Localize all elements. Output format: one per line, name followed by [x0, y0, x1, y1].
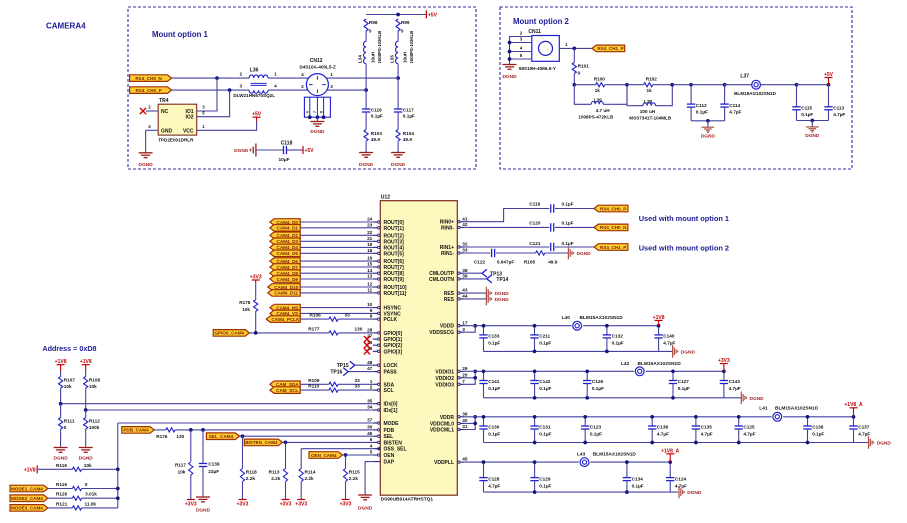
port CAM_SDA: [270, 381, 300, 388]
wire BISTEN to pin: [283, 441, 373, 443]
svg-text:0.1µF: 0.1µF: [539, 432, 551, 437]
svg-text:C112: C112: [696, 103, 707, 108]
resistor R101 0: [572, 48, 589, 84]
svg-text:R100: R100: [594, 77, 606, 82]
svg-text:1008PS-103KLB: 1008PS-103KLB: [377, 31, 382, 64]
svg-text:IDx[1]: IDx[1]: [384, 408, 398, 414]
U12 left pin 48 LOCK: [367, 360, 398, 369]
svg-text:130: 130: [355, 326, 363, 331]
svg-text:0.1µF: 0.1µF: [812, 432, 824, 437]
U12 right pin 41 RIN0+: [440, 216, 468, 225]
svg-text:4.7µF: 4.7µF: [488, 483, 500, 488]
svg-text:VDDIO2: VDDIO2: [435, 376, 454, 382]
svg-text:C116: C116: [371, 107, 382, 112]
U12 left pin 37 MODE: [367, 418, 399, 427]
test point TP15 on LOCK: [337, 361, 373, 369]
wire VDDR rail: [465, 416, 854, 418]
svg-text:CAMERA4: CAMERA4: [46, 22, 86, 31]
svg-text:SCL: SCL: [384, 388, 394, 394]
junction R118 top: [241, 434, 245, 438]
svg-text:59S10H-40ML5-Y: 59S10H-40ML5-Y: [519, 66, 556, 71]
svg-text:C118: C118: [281, 141, 293, 147]
power +1V8 at R116: [36, 465, 38, 473]
svg-text:BLM15AX102SN1D: BLM15AX102SN1D: [580, 315, 624, 321]
ground DGND at C118: [234, 144, 256, 157]
capacitor C137 4.7µF: [849, 417, 870, 443]
port RX4_CH0_P: [130, 87, 172, 94]
svg-text:OSS_SEL: OSS_SEL: [384, 447, 407, 453]
svg-text:32: 32: [462, 242, 468, 247]
U12 right pin 36 VDDR: [440, 411, 468, 420]
svg-text:VDDCML1: VDDCML1: [430, 428, 454, 434]
svg-text:CAM_SCL: CAM_SCL: [276, 388, 298, 393]
svg-text:BISTEN: BISTEN: [384, 440, 403, 446]
svg-text:3: 3: [462, 327, 465, 332]
svg-text:+1V8: +1V8: [653, 315, 665, 321]
svg-text:15: 15: [367, 262, 373, 267]
svg-text:+5V: +5V: [428, 13, 438, 19]
capacitor C127 0.1µF: [669, 371, 690, 398]
wire VDDIO2 bracket: [465, 371, 475, 378]
capacitor C139 22uF: [199, 430, 220, 497]
U12 left pin 19 ROUT[4]: [367, 242, 404, 251]
junction C137 top: [852, 415, 856, 419]
svg-text:R120: R120: [56, 492, 68, 497]
svg-text:R176: R176: [156, 434, 168, 439]
svg-text:49.9: 49.9: [403, 137, 413, 142]
wire R98 to L34: [365, 31, 367, 41]
svg-text:VDDD: VDDD: [440, 324, 455, 330]
svg-text:31: 31: [462, 424, 468, 429]
capacitor C120 0.1uF: [529, 221, 573, 232]
port CAM4_D7: [270, 264, 300, 271]
U12 left pin 28 GPIO[0]: [367, 328, 402, 337]
junction C211 bottom: [533, 350, 537, 354]
power +5V at C118: [302, 146, 304, 154]
dashed boundary box mount option 1: [128, 7, 476, 169]
svg-text:16: 16: [367, 256, 373, 261]
svg-text:RIN0-: RIN0-: [441, 225, 454, 231]
junction R108/R112: [84, 408, 88, 412]
svg-text:R106: R106: [310, 313, 322, 318]
capacitor C112 0.1uF: [687, 85, 708, 121]
wire CAM4_D6 to pin: [300, 260, 373, 262]
U12 left pin 30 PDB: [367, 425, 394, 434]
resistor R119 0: [48, 482, 118, 491]
junction R117 top: [189, 428, 193, 432]
U12 right pin 31 VDDCML1: [430, 424, 468, 433]
wire C112 to C114 top: [691, 84, 725, 86]
wire VDDCML1 bracket: [465, 423, 475, 429]
wire VDDIO rail: [465, 370, 724, 372]
wire CAM4_D8 to pin: [300, 272, 373, 274]
svg-text:NC: NC: [161, 109, 169, 115]
svg-text:TP14: TP14: [496, 277, 508, 283]
svg-text:5: 5: [370, 450, 373, 455]
wire CAM4_D5 to pin: [300, 252, 373, 254]
svg-text:47: 47: [367, 366, 373, 371]
junction C124 top: [668, 460, 672, 464]
svg-text:R112: R112: [89, 419, 100, 424]
U12 left pin 4 OSS_SEL: [370, 443, 407, 452]
capacitor C118 10uF: [279, 141, 293, 163]
junction R119: [116, 487, 120, 491]
wire CAM4_HS to HSYNC: [301, 307, 373, 309]
svg-text:C128: C128: [488, 476, 500, 481]
svg-text:DGND: DGND: [79, 456, 94, 462]
svg-text:4.7µF: 4.7µF: [729, 386, 741, 391]
svg-text:43: 43: [462, 288, 468, 293]
svg-text:IO2: IO2: [185, 115, 193, 121]
svg-text:44: 44: [462, 294, 468, 299]
svg-text:0.1µF: 0.1µF: [562, 221, 574, 226]
wire C115 to C113 top: [797, 84, 829, 86]
wire RIN0- to C120: [465, 226, 550, 228]
U12 left pin 35 IDx[0]: [367, 398, 398, 407]
svg-text:21: 21: [367, 236, 373, 241]
svg-text:+5V: +5V: [252, 112, 262, 118]
svg-text:ROUT[1]: ROUT[1]: [384, 226, 405, 232]
svg-text:R113: R113: [269, 469, 280, 474]
U12 left pin 8 PCLK: [370, 314, 398, 323]
junction C130 top: [482, 415, 486, 419]
svg-text:+3V3: +3V3: [237, 502, 249, 508]
capacitor C115 0.1uF: [792, 85, 813, 121]
svg-text:R102: R102: [646, 77, 658, 82]
port GPIO0_CAM4: [213, 330, 249, 337]
svg-text:4.7µF: 4.7µF: [729, 109, 741, 114]
svg-text:11: 11: [367, 288, 372, 293]
svg-text:R178: R178: [239, 300, 251, 305]
svg-text:L37: L37: [740, 73, 749, 79]
power +3V3 under R113: [285, 499, 287, 501]
svg-text:29: 29: [462, 366, 468, 371]
svg-text:C133: C133: [488, 334, 500, 339]
svg-text:CAM4_D7: CAM4_D7: [277, 265, 299, 270]
svg-text:9: 9: [370, 308, 373, 313]
svg-text:10k: 10k: [178, 469, 186, 474]
junction R178 bottom: [254, 331, 258, 335]
wire L35 column to C117: [397, 78, 399, 109]
svg-text:CAM4_D3: CAM4_D3: [277, 239, 299, 244]
svg-text:11.0k: 11.0k: [85, 502, 97, 507]
wire bottom row CN12 to L34: [326, 89, 366, 91]
svg-text:+1V8_A: +1V8_A: [661, 448, 680, 454]
svg-text:CAM4_D5: CAM4_D5: [277, 251, 299, 256]
svg-text:C134: C134: [632, 476, 644, 481]
svg-text:C132: C132: [612, 334, 624, 339]
svg-text:SEL: SEL: [384, 434, 394, 440]
ground DGND under DAP: [358, 494, 372, 496]
svg-text:+3V3: +3V3: [718, 358, 730, 364]
svg-text:19: 19: [367, 242, 373, 247]
wire C118 to +5V: [287, 149, 303, 151]
svg-text:MODE: MODE: [384, 421, 400, 427]
svg-text:+1V8: +1V8: [55, 359, 67, 365]
svg-text:+1V8: +1V8: [80, 359, 92, 365]
junction C136 top: [806, 415, 810, 419]
svg-text:R104: R104: [403, 131, 415, 136]
svg-text:C119: C119: [529, 202, 540, 207]
pin 3 wire: [510, 42, 532, 44]
port CAM4_D5: [270, 250, 300, 257]
U12 right pin 38 CMLOUTP: [429, 268, 468, 277]
svg-text:SEL_CAM4: SEL_CAM4: [209, 434, 234, 439]
wire: [559, 47, 592, 49]
junction C135 bottom: [694, 441, 698, 445]
power +3V3 under R118: [242, 499, 244, 501]
svg-text:R117: R117: [175, 462, 186, 467]
svg-text:L36: L36: [250, 68, 259, 74]
junction C138 top: [650, 415, 654, 419]
svg-text:+5V: +5V: [305, 148, 315, 154]
capacitor C125 4.7µF: [735, 417, 756, 443]
svg-text:ROUT[7]: ROUT[7]: [384, 265, 405, 271]
svg-text:DGND: DGND: [681, 350, 696, 356]
svg-text:10uH: 10uH: [370, 51, 375, 63]
capacitor C123 0.1µF: [581, 417, 602, 443]
svg-text:48: 48: [367, 360, 373, 365]
junction C134 top: [625, 460, 629, 464]
wire CAM4_D0 to pin: [300, 221, 373, 223]
wire C112/C114 bottoms: [691, 120, 725, 122]
svg-text:2.2k: 2.2k: [305, 476, 315, 481]
svg-text:C141: C141: [488, 379, 500, 384]
svg-text:8: 8: [319, 111, 323, 113]
shield pin joint: [322, 115, 326, 119]
svg-text:10: 10: [367, 302, 373, 307]
svg-text:17: 17: [462, 320, 468, 325]
wire VDDD rail: [465, 325, 659, 327]
capacitor C135 4.7µF: [692, 417, 713, 443]
junction C140 top: [657, 324, 661, 328]
resistor R120 3.01k: [48, 492, 118, 501]
resistor R113 2.2k: [269, 442, 288, 499]
svg-text:2.2k: 2.2k: [271, 476, 281, 481]
svg-text:7: 7: [462, 379, 465, 384]
wire: [172, 89, 250, 91]
svg-text:DGND: DGND: [139, 162, 154, 168]
svg-text:BLM18AG102SN1D: BLM18AG102SN1D: [734, 91, 777, 96]
svg-text:DGND: DGND: [391, 162, 406, 168]
svg-text:GPIO[3]: GPIO[3]: [384, 349, 403, 355]
svg-text:C130: C130: [488, 425, 500, 430]
svg-text:C211: C211: [539, 334, 550, 339]
svg-text:4.7µF: 4.7µF: [663, 341, 675, 346]
svg-text:VDDCML0: VDDCML0: [430, 421, 454, 427]
power +3V3 at VDDIO rail: [723, 364, 725, 372]
svg-text:LOCK: LOCK: [384, 363, 399, 369]
svg-text:BLM15AX102SN1D: BLM15AX102SN1D: [593, 451, 637, 457]
junction C125 top: [737, 415, 741, 419]
svg-text:1k: 1k: [647, 88, 653, 93]
wire L34 column to C116: [365, 90, 367, 109]
wire IDx1 net: [86, 409, 373, 411]
pin 5 wire: [510, 58, 532, 60]
connector CN11 59S10H-40ML5-Y: [519, 29, 559, 71]
ground DGND termination RIN1-: [567, 247, 569, 260]
wire CAM4_D3 to pin: [300, 240, 373, 242]
svg-text:C114: C114: [729, 103, 740, 108]
svg-text:0: 0: [369, 29, 372, 34]
svg-text:GPIO[0]: GPIO[0]: [384, 331, 403, 337]
ground DGND under R104: [391, 152, 405, 154]
port MODE1_CAM4: [10, 485, 48, 492]
U12 left pin 47 PASS: [367, 366, 397, 375]
capacitor C136 0.1µF: [803, 417, 824, 443]
junction C211 top: [533, 324, 537, 328]
port CAM4_D10: [268, 284, 300, 291]
svg-text:DGND: DGND: [577, 251, 592, 257]
svg-text:ROUT[5]: ROUT[5]: [384, 251, 405, 257]
svg-text:VDDIO1: VDDIO1: [435, 369, 454, 375]
U12 left pin 34 IDx[1]: [367, 405, 398, 414]
junction C141 top: [482, 369, 486, 373]
svg-text:PDB: PDB: [384, 428, 395, 434]
capacitor C121 0.1uF: [529, 241, 573, 251]
junction R99 top: [396, 13, 400, 17]
wire CAM4_D1 to pin: [300, 227, 373, 229]
svg-text:4.7µF: 4.7µF: [833, 112, 845, 117]
U12 right pin 32 RIN1+: [440, 242, 468, 251]
pin 2 NC no-connect: [146, 110, 158, 112]
junction C138 bottom: [650, 441, 654, 445]
svg-text:MODE1_CAM4: MODE1_CAM4: [11, 486, 43, 491]
wire C116 to R103: [365, 112, 367, 130]
port RX4_CH1_P at CN11: [592, 45, 625, 52]
junction C123 bottom: [583, 441, 587, 445]
svg-text:GPIO0_CAM4: GPIO0_CAM4: [214, 331, 244, 336]
svg-text:VCC: VCC: [183, 128, 194, 134]
U12 right pin 44 RES: [444, 294, 468, 303]
svg-text:C135: C135: [701, 425, 713, 430]
junction R115 top: [344, 453, 348, 457]
U12 right pin 40 VDDCML0: [430, 418, 468, 427]
svg-text:BISTEN_CAM4: BISTEN_CAM4: [245, 440, 278, 445]
wire VDDIO return rail: [484, 397, 742, 399]
wire GPIO0_CAM4 to R177: [249, 332, 329, 334]
port MODE2_CAM4: [10, 495, 48, 502]
U12 left pin 14 ROUT[8]: [367, 268, 404, 277]
svg-text:10µF: 10µF: [279, 157, 290, 163]
svg-text:0.1µF: 0.1µF: [632, 483, 644, 488]
svg-text:28: 28: [367, 328, 373, 333]
U12 right pin 7 VDDIO3: [435, 379, 465, 388]
svg-text:0.1µF: 0.1µF: [488, 341, 500, 346]
U12 left pin 1 SDA: [370, 379, 395, 388]
svg-text:10uH: 10uH: [402, 51, 407, 63]
svg-text:GPIO[2]: GPIO[2]: [384, 343, 403, 349]
svg-text:RX4_CH0_N: RX4_CH0_N: [600, 225, 627, 230]
U12 left pin 26 GPIO[2]: [367, 340, 402, 349]
svg-text:0.1µF: 0.1µF: [488, 432, 500, 437]
svg-text:C125: C125: [743, 425, 755, 430]
svg-text:RES: RES: [444, 297, 455, 303]
port CAM4_D0: [270, 219, 300, 226]
junction pin1: [572, 47, 576, 51]
junction C134 bottom: [625, 490, 629, 494]
svg-text:PCLK: PCLK: [384, 317, 398, 323]
deserializer U12 DS90UB914ATRHSTQ1 body: [380, 195, 457, 503]
svg-text:C143: C143: [729, 379, 741, 384]
svg-text:GPIO[1]: GPIO[1]: [384, 337, 403, 343]
svg-text:0.1µF: 0.1µF: [539, 483, 551, 488]
capacitor C114 4.7uF: [720, 85, 741, 121]
svg-text:TR4: TR4: [159, 98, 169, 104]
svg-text:DGND: DGND: [701, 133, 716, 139]
capacitor C138 4.7µF: [648, 417, 669, 443]
port RX4_CH0_N out: [594, 224, 628, 231]
svg-text:0.1µF: 0.1µF: [612, 341, 624, 346]
svg-text:R109: R109: [308, 378, 320, 383]
resistor R110 33: [301, 384, 373, 393]
junction C129 top: [533, 460, 537, 464]
ground DGND VDDPLL rail: [678, 486, 680, 499]
power +1V8 above R108: [85, 365, 87, 371]
ferrite bead L43 BLM15AX102SN1D: [577, 451, 636, 467]
port RX4_CH0_N: [130, 75, 172, 82]
U12 left pin DAP: [373, 460, 395, 466]
resistor R116 10k: [37, 463, 118, 472]
svg-text:RX4_CH0_N: RX4_CH0_N: [135, 76, 162, 81]
wire top row CN12 to L35: [327, 77, 398, 79]
capacitor C124 4.7µF: [666, 462, 687, 492]
no-connect GPIO[1]: [364, 336, 370, 342]
svg-text:4.7µF: 4.7µF: [657, 432, 669, 437]
capacitor C113 4.7uF: [824, 85, 845, 121]
wire CAM4_D7 to pin: [300, 266, 373, 268]
power +5V of PoC filter: [425, 11, 427, 19]
U12 left pin 21 ROUT[3]: [367, 236, 404, 245]
svg-text:L41: L41: [759, 406, 768, 412]
svg-text:R101: R101: [578, 64, 590, 69]
svg-text:CAM4_D9: CAM4_D9: [277, 277, 299, 282]
wire OEN to pin: [343, 454, 373, 456]
ground DGND under C112/C114: [707, 121, 709, 127]
inductor L39 4.7uH 1008PS-472KLB: [574, 85, 627, 120]
pin 3 IO1 wire to top row: [197, 78, 217, 111]
svg-text:30: 30: [367, 425, 373, 430]
svg-text:+3V3: +3V3: [185, 502, 197, 508]
wire C114 to L37: [725, 84, 752, 86]
wire RIN1- to C122: [465, 252, 491, 254]
wire MODE bus vertical: [117, 423, 119, 469]
junction at IO1 riser: [215, 76, 219, 80]
resistor R100 1k: [574, 77, 627, 93]
U12 right pin 42 RIN0-: [441, 222, 468, 231]
capacitor C133 0.1µF: [479, 326, 500, 352]
svg-text:C131: C131: [539, 425, 551, 430]
port MODE3_CAM4: [10, 505, 48, 512]
svg-text:R116: R116: [56, 463, 67, 468]
capacitor C132 0.1µF: [603, 326, 624, 352]
svg-text:+3V3: +3V3: [295, 502, 307, 508]
svg-text:VDDR: VDDR: [440, 415, 455, 421]
resistor R109 33: [301, 378, 373, 387]
ground DGND under R111: [54, 447, 68, 449]
U12 left pin 11 ROUT[11]: [367, 288, 406, 297]
svg-text:C139: C139: [208, 461, 220, 466]
U12 right pin 39 CMLOUTN: [429, 274, 468, 283]
wire VDDIO3 bracket: [465, 378, 475, 385]
svg-text:BLM15AX102SN1D: BLM15AX102SN1D: [638, 361, 682, 367]
svg-text:12: 12: [367, 282, 373, 287]
shield pin joint: [308, 115, 312, 119]
wire L35 down to top row: [397, 64, 399, 78]
no-connect GPIO[3]: [364, 348, 370, 354]
port BISTEN_CAM4: [244, 439, 282, 446]
svg-text:0: 0: [401, 29, 404, 34]
